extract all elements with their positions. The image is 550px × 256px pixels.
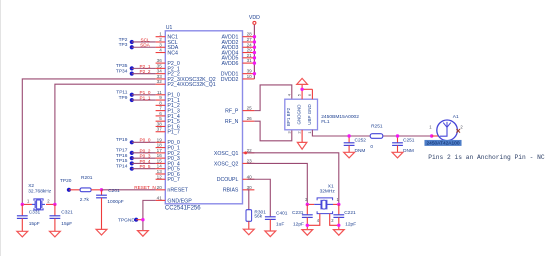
node FL1 top junction	[300, 88, 303, 91]
net label RESET_N	[134, 185, 156, 190]
svg-text:UBP GND: UBP GND	[307, 104, 312, 125]
svg-text:RESET_N: RESET_N	[134, 185, 156, 190]
antenna A1 2450AT42A100	[429, 114, 463, 141]
wire TP3 to SDA	[132, 46, 156, 48]
svg-text:C201: C201	[108, 188, 120, 194]
svg-text:FL1: FL1	[321, 119, 330, 125]
U1 left pin 13 P0_6	[156, 169, 180, 178]
svg-text:2450AT42A100: 2450AT42A100	[427, 141, 460, 147]
U1 left pin 20 nRESET	[156, 185, 189, 194]
svg-text:16: 16	[157, 153, 163, 158]
test point TP3	[119, 42, 134, 49]
U1 left pin 16 P0_3	[156, 153, 180, 162]
wire R201 to node	[91, 189, 101, 191]
svg-text:XOSC_Q2: XOSC_Q2	[214, 161, 239, 167]
ground under C401	[265, 231, 276, 237]
U1 right pin 29 AVDD4	[221, 48, 254, 57]
U1 left pin 9 P1_1	[156, 95, 180, 104]
net label P0_0	[140, 138, 151, 143]
U1 right pin 27 AVDD2	[221, 37, 254, 46]
svg-text:10: 10	[247, 74, 253, 79]
wire DCOUPL to C401	[247, 179, 270, 217]
U1 left pin 38 P1_6	[156, 121, 180, 130]
wire TP9 to P1_1	[132, 99, 156, 101]
svg-text:23: 23	[247, 158, 253, 163]
svg-text:A1: A1	[453, 114, 459, 120]
svg-text:RF_P: RF_P	[225, 109, 239, 115]
U1 left pin 8 P1_2	[156, 100, 180, 109]
net label P2_1	[140, 64, 151, 69]
svg-text:TP20: TP20	[60, 178, 72, 184]
U1 left pin 32 P2_4/XOSC32K_Q1	[156, 79, 216, 88]
U1 right pin 25 RF_P	[225, 106, 254, 115]
ground under C231	[302, 230, 313, 236]
U1 right pin 26 RF_N	[225, 116, 255, 125]
svg-text:SCL: SCL	[140, 37, 150, 42]
wire TP15 to P0_4	[132, 162, 156, 164]
svg-text:20: 20	[157, 185, 163, 190]
crystal X2 32.768kHz	[22, 183, 55, 210]
svg-text:34: 34	[157, 69, 163, 74]
U1 right pin 39 DVDD1	[221, 69, 255, 78]
U1 left pin 41 GND/EGP	[156, 195, 193, 204]
capacitor C321	[50, 204, 74, 231]
svg-text:12pF: 12pF	[293, 221, 304, 227]
svg-text:Pins 2 is an Anchoring Pin - N: Pins 2 is an Anchoring Pin - NC	[428, 154, 545, 161]
svg-text:CC2541F256: CC2541F256	[165, 205, 201, 211]
svg-text:XOSC_Q1: XOSC_Q1	[214, 151, 239, 157]
svg-text:X2: X2	[28, 183, 34, 189]
svg-text:0: 0	[370, 144, 373, 150]
U1 right pin 22 XOSC_Q1	[214, 148, 255, 157]
svg-text:15pF: 15pF	[29, 221, 40, 227]
ground under R301	[243, 229, 254, 235]
svg-text:P1_0: P1_0	[140, 90, 151, 95]
ground under C321	[50, 231, 61, 237]
svg-text:TP11: TP11	[116, 90, 127, 96]
svg-text:DVDD2: DVDD2	[221, 77, 239, 83]
wire TP35 to P2_1	[132, 67, 156, 69]
U1 right pin 10 DVDD2	[221, 74, 255, 83]
svg-text:3: 3	[159, 42, 162, 47]
svg-text:19: 19	[157, 137, 163, 142]
svg-text:7: 7	[159, 106, 162, 111]
svg-text:28: 28	[247, 32, 253, 37]
svg-text:SDA: SDA	[140, 43, 151, 48]
svg-text:40: 40	[247, 174, 253, 179]
svg-text:15: 15	[157, 158, 163, 163]
svg-text:TP3: TP3	[119, 42, 128, 48]
svg-text:8: 8	[159, 100, 162, 105]
U1 right pin 28 AVDD1	[221, 32, 254, 41]
ground under FL1 pin2	[297, 142, 307, 149]
svg-text:6: 6	[159, 111, 162, 116]
U1 left pin 3 SDA	[156, 42, 179, 51]
svg-text:17: 17	[157, 148, 163, 153]
svg-text:1: 1	[159, 32, 162, 37]
svg-text:9: 9	[159, 95, 162, 100]
junction dots VDD rail	[253, 35, 256, 75]
note text	[428, 154, 545, 161]
wire TP2 to SCL	[132, 41, 156, 43]
svg-text:nRESET: nRESET	[167, 188, 188, 194]
U1 left pin 6 P1_4	[156, 111, 180, 120]
resistor R201	[80, 175, 93, 203]
svg-text:2: 2	[159, 37, 162, 42]
U1 left pin 36 P2_0	[156, 58, 180, 67]
node RESET junction	[100, 188, 103, 191]
net label P0_4	[140, 159, 151, 164]
U1 left pin 1 NC1	[156, 32, 178, 41]
net label P1_1	[140, 95, 151, 100]
svg-text:32: 32	[157, 79, 163, 84]
U1 left pin 5 P1_5	[156, 116, 180, 125]
net label P2_2	[140, 69, 151, 74]
wire FL1 pin1 to antenna	[312, 130, 431, 136]
node C231 bottom	[306, 224, 309, 227]
svg-text:DNM: DNM	[355, 148, 366, 154]
capacitor C331	[17, 204, 41, 231]
svg-text:11: 11	[157, 90, 162, 95]
wire TP17 to P0_2	[132, 152, 156, 154]
U1 right pin 23 XOSC_Q2	[214, 158, 255, 167]
svg-text:39: 39	[247, 69, 253, 74]
svg-text:C252: C252	[355, 137, 367, 143]
test point TP34	[116, 68, 134, 75]
U1 right pin 40 DCOUPL	[217, 174, 255, 183]
svg-text:VDD: VDD	[249, 15, 260, 21]
svg-text:P2_4/XOSC32K_Q1: P2_4/XOSC32K_Q1	[167, 82, 215, 88]
net label P1_0	[140, 90, 151, 95]
svg-text:C401: C401	[276, 210, 288, 216]
wire FL1 pin5 pin6 to ground-up	[302, 84, 312, 99]
IC U1 CC2541F256 body	[165, 25, 242, 204]
U1 left pin 19 P0_0	[156, 137, 180, 146]
svg-text:C331: C331	[29, 210, 41, 216]
wire RESET_N to nRESET pin 20	[102, 189, 156, 191]
wire FL1 pin2 to ground	[301, 130, 303, 143]
node C221 bottom	[337, 224, 340, 227]
svg-text:31: 31	[247, 58, 253, 63]
svg-text:C221: C221	[344, 210, 356, 216]
test point TP17	[116, 148, 134, 155]
test point TP11	[116, 90, 134, 97]
FL1 pin numbers	[286, 93, 312, 133]
node C251	[396, 134, 399, 137]
U1 left pin 15 P0_4	[156, 158, 180, 167]
U1 left pin 11 P1_0	[156, 90, 180, 99]
svg-text:56k: 56k	[254, 214, 262, 220]
wire P2_4/XOSC32K_Q1 to X2 pin2	[55, 84, 156, 204]
svg-text:35: 35	[157, 63, 163, 68]
ground-up symbol above FL1	[297, 78, 308, 84]
node X2 pin2	[53, 203, 56, 206]
test point TP2	[119, 37, 134, 44]
wire TP34 to P2_2	[132, 73, 156, 75]
svg-text:U1: U1	[166, 25, 173, 31]
wire GND/EGP pin 41 to ground	[143, 200, 156, 230]
svg-text:4: 4	[159, 48, 162, 53]
svg-text:25: 25	[247, 106, 253, 111]
svg-text:12: 12	[157, 174, 163, 179]
U1 left pin 34 P2_2	[156, 69, 180, 78]
test point TP15	[116, 158, 134, 165]
label 2450AT42A100 highlighted	[425, 140, 462, 146]
U1 right pin 21 AVDD5	[221, 53, 254, 62]
svg-text:DCOUPL: DCOUPL	[217, 177, 239, 183]
U1 left pin 2 SCL	[156, 37, 178, 46]
svg-text:P2_2: P2_2	[140, 69, 151, 74]
node X1 pin3	[306, 203, 309, 206]
svg-text:36: 36	[157, 58, 163, 63]
capacitor C252 DNM	[344, 136, 367, 154]
svg-text:12pF: 12pF	[345, 221, 356, 227]
ground under C251	[392, 152, 403, 158]
svg-text:TP35: TP35	[116, 63, 128, 69]
balun FL1 2450BM15A0002	[285, 99, 359, 130]
U1 left pin 33 P2_3/XOSC32K_Q2	[156, 74, 216, 83]
svg-text:P0_5: P0_5	[140, 164, 151, 169]
U1 right pin 30 RBIAS	[223, 185, 255, 194]
net label SCL	[140, 37, 150, 42]
resistor R301	[246, 209, 266, 229]
svg-text:1uF: 1uF	[276, 222, 284, 228]
wire VDD rail	[253, 25, 255, 79]
U1 left pin 37 P1_7	[156, 127, 180, 136]
wire TP14 to P0_5	[132, 168, 156, 170]
wire P2_3/XOSC32K_Q2 to X2 pin1	[22, 79, 155, 204]
wire X1 pin4 to ground node	[307, 214, 320, 226]
wire TP20 to R201	[69, 189, 80, 191]
wire RF_P to FL1 pin4	[254, 85, 291, 111]
ground under C252	[344, 152, 355, 158]
svg-text:RBIAS: RBIAS	[223, 188, 239, 194]
wire XOSC_Q2 to X1 pin3	[247, 163, 307, 204]
net label P0_5	[140, 164, 151, 169]
svg-text:P0_3: P0_3	[140, 154, 151, 159]
svg-text:NC4: NC4	[167, 50, 178, 56]
svg-text:2.7k: 2.7k	[80, 197, 90, 203]
ground under C331	[17, 231, 28, 237]
svg-text:14: 14	[157, 164, 163, 169]
svg-text:37: 37	[157, 127, 163, 132]
svg-text:41: 41	[157, 195, 163, 200]
U1 left pin 14 P0_5	[156, 164, 180, 173]
U1 right pin 24 AVDD3	[221, 42, 254, 51]
svg-text:TP17: TP17	[116, 148, 128, 154]
svg-text:P1_7: P1_7	[167, 130, 179, 136]
svg-text:P0_7: P0_7	[167, 177, 179, 183]
U1 left pin 35 P2_1	[156, 63, 180, 72]
svg-text:TP15: TP15	[116, 158, 128, 164]
svg-text:15pF: 15pF	[61, 221, 72, 227]
capacitor C231	[292, 204, 313, 229]
svg-text:13: 13	[157, 169, 163, 174]
svg-text:22: 22	[247, 148, 253, 153]
svg-text:AVDD6: AVDD6	[221, 61, 238, 67]
wire RBIAS to R301	[247, 190, 248, 210]
svg-text:26: 26	[247, 116, 253, 121]
ground under TPGND	[138, 231, 149, 237]
ground under C201	[96, 229, 107, 235]
svg-text:29: 29	[247, 48, 253, 53]
capacitor C221	[333, 204, 356, 229]
U1 right pin 31 AVDD6	[221, 58, 254, 67]
svg-text:C321: C321	[61, 210, 73, 216]
svg-text:BP1 BP2: BP1 BP2	[286, 107, 291, 126]
svg-text:30: 30	[247, 185, 253, 190]
svg-text:27: 27	[247, 37, 253, 42]
wire TP19 to P0_0	[132, 141, 156, 143]
svg-text:R251: R251	[371, 124, 383, 130]
svg-text:P0_2: P0_2	[140, 148, 151, 153]
svg-text:TP34: TP34	[116, 68, 128, 74]
svg-text:21: 21	[247, 53, 253, 58]
capacitor C251 DNM	[392, 136, 415, 154]
svg-text:TP14: TP14	[116, 164, 128, 170]
wire TP11 to P1_0	[132, 94, 156, 96]
svg-text:P0_0: P0_0	[140, 138, 151, 143]
svg-text:DNM: DNM	[403, 148, 414, 154]
node C252	[347, 134, 350, 137]
ground under C221	[333, 230, 344, 236]
svg-text:P2_1: P2_1	[140, 64, 151, 69]
test point TP20	[60, 178, 72, 192]
svg-text:5: 5	[159, 116, 162, 121]
net label P0_2	[140, 148, 151, 153]
svg-text:TP9: TP9	[119, 95, 128, 101]
capacitor C201	[96, 188, 124, 229]
net label P0_3	[140, 154, 151, 159]
test point TP16	[116, 153, 134, 160]
U1 left pin 18 P0_1	[156, 143, 180, 152]
U1 left pin 17 P0_2	[156, 148, 180, 157]
test point TPGND	[118, 217, 143, 223]
wire XOSC_Q1 to X1 pin1	[244, 151, 339, 204]
test point TP35	[116, 63, 134, 70]
U1 left pin 7 P1_3	[156, 106, 180, 115]
node X2 pin1	[21, 203, 24, 206]
svg-text:GNDGND: GNDGND	[296, 104, 301, 125]
capacitor C401	[265, 210, 288, 231]
wire RF_N to FL1 pin3	[254, 121, 291, 141]
node X1 pin1	[337, 203, 340, 206]
svg-text:GND/EGP: GND/EGP	[167, 198, 192, 204]
label CC2541F256	[165, 205, 201, 211]
U1 left pin 12 P0_7	[156, 174, 180, 183]
power symbol VDD	[249, 15, 260, 25]
crystal X1 32MHz	[305, 184, 340, 224]
svg-text:32.768kHz: 32.768kHz	[28, 189, 52, 195]
svg-text:P0_4: P0_4	[140, 159, 151, 164]
svg-text:33: 33	[157, 74, 163, 79]
svg-text:24: 24	[247, 42, 253, 47]
svg-text:18: 18	[157, 143, 163, 148]
svg-text:TP16: TP16	[116, 153, 128, 159]
wire X1 pin2 to ground node	[330, 214, 339, 226]
svg-text:P1_1: P1_1	[140, 95, 151, 100]
U1 left pin 4 NC4	[156, 48, 178, 57]
svg-text:TPGND: TPGND	[118, 217, 135, 223]
svg-text:C231: C231	[292, 210, 304, 216]
svg-text:1000pF: 1000pF	[107, 199, 123, 205]
net label SDA	[140, 43, 151, 48]
svg-text:R201: R201	[81, 175, 93, 181]
svg-text:C251: C251	[403, 137, 415, 143]
svg-text:RF_N: RF_N	[225, 119, 239, 125]
test point TP14	[116, 164, 134, 171]
svg-text:38: 38	[157, 121, 163, 126]
svg-text:TP19: TP19	[116, 137, 128, 143]
node TPGND junction	[141, 218, 144, 221]
frame left edge	[0, 0, 2, 256]
test point TP19	[116, 137, 134, 144]
svg-text:TP2: TP2	[119, 37, 128, 43]
test point TP9	[119, 95, 134, 102]
resistor R251	[370, 124, 383, 151]
svg-text:32MHz: 32MHz	[320, 188, 336, 194]
wire TP16 to P0_3	[132, 157, 156, 159]
node antenna pin1	[430, 134, 433, 137]
